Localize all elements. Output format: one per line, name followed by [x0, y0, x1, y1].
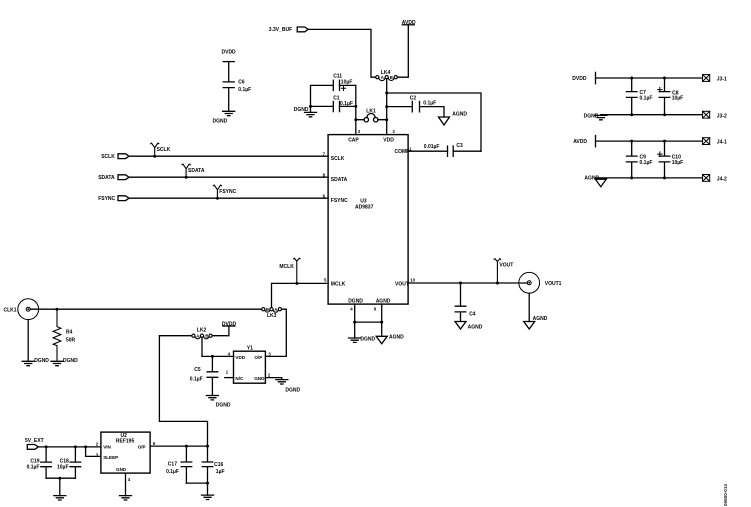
connector SCLK: [101, 154, 129, 160]
svg-text:SDATA: SDATA: [98, 175, 115, 181]
wire LK4 B to AVDD: [397, 25, 408, 77]
connector FSYNC: [98, 196, 129, 202]
svg-text:FSYNC: FSYNC: [219, 189, 236, 195]
wire joining pins 4 and 9: [355, 321, 382, 323]
junction VDD/C2: [385, 105, 388, 108]
wire C6 to ground: [228, 88, 230, 112]
svg-text:DGND: DGND: [34, 358, 49, 364]
svg-text:R4: R4: [66, 329, 73, 335]
svg-text:AVDD: AVDD: [402, 20, 416, 26]
svg-text:DGND: DGND: [294, 107, 309, 113]
junction C1/DGND: [309, 105, 312, 108]
svg-text:0.1µF: 0.1µF: [423, 101, 436, 107]
capacitor C8 10uF (polarized): [658, 78, 684, 115]
wire C2 to AGND: [420, 107, 445, 117]
ground DGND (C16/C17): [202, 495, 214, 499]
svg-text:DVDD: DVDD: [222, 321, 237, 327]
power flag DVDD (above LK2): [222, 321, 237, 327]
pin 2 label (U2): [96, 441, 99, 446]
wire CLK1 shield to ground: [27, 320, 29, 362]
regulator U2 REF195: [101, 432, 150, 473]
wire LK3 A to Y1 output: [265, 309, 286, 356]
power flag DVDD (top left): [222, 50, 237, 62]
svg-text:1µF: 1µF: [216, 469, 225, 475]
svg-text:DGND: DGND: [216, 402, 231, 408]
svg-text:DGND: DGND: [348, 298, 363, 304]
junction C18: [74, 445, 77, 448]
ground DGND (U3 pin 4): [349, 337, 376, 343]
wire AVDD rail to J4-1: [596, 140, 703, 142]
pin 7 SCLK label: [323, 151, 345, 162]
svg-text:DVDD: DVDD: [222, 50, 237, 56]
connector J4-2: [703, 175, 728, 183]
junction C7 top: [630, 77, 633, 80]
ground AGND (right of C2): [439, 112, 468, 126]
wire LK2 A to REF195 output: [159, 336, 207, 446]
svg-text:MCLK: MCLK: [331, 282, 346, 288]
wire C11 left to DGND drop: [311, 85, 334, 106]
power flag DVDD (right block): [572, 72, 595, 83]
svg-text:AGND: AGND: [452, 112, 467, 118]
pin 8 SDATA label: [323, 172, 348, 183]
svg-text:AVDD: AVDD: [573, 139, 587, 145]
pin 2 VDD label: [383, 129, 395, 144]
wire U2 O/P to C16 node: [150, 445, 207, 447]
svg-text:FSYNC: FSYNC: [331, 198, 348, 204]
svg-text:0.1µF: 0.1µF: [640, 160, 653, 166]
wire AGND rail to J4-2: [596, 177, 703, 179]
pin 2 label (Y1): [268, 373, 271, 378]
pin 3 CAP label: [348, 129, 361, 144]
connector SDATA: [98, 175, 129, 181]
test point VOUT: [494, 259, 513, 285]
junction C18/C19 ground rail: [58, 477, 61, 480]
wire AGND pin 9 below U3: [381, 304, 383, 336]
wire SDATA to pin 8: [129, 176, 328, 178]
wire LK2 centre down to Y1 VDD: [201, 337, 203, 356]
svg-text:C6: C6: [238, 80, 245, 86]
ground DGND (Y1): [276, 378, 301, 394]
ground DGND (C5): [206, 396, 231, 409]
oscillator Y1: [234, 346, 266, 384]
ground AGND (VOUT1): [524, 316, 548, 329]
svg-text:LK2: LK2: [197, 328, 207, 334]
svg-text:LK4: LK4: [381, 70, 391, 76]
wire COMP pin 1 to C3: [408, 150, 447, 152]
wire CAP pin line: [355, 85, 357, 134]
svg-text:C3: C3: [456, 143, 463, 149]
svg-text:10µF: 10µF: [672, 96, 684, 102]
junction CAP/C1: [354, 105, 357, 108]
capacitor C3 0.01uF: [424, 143, 463, 156]
pin 5 MCLK label: [324, 278, 346, 288]
svg-text:VDD: VDD: [235, 355, 245, 360]
svg-text:SCLK: SCLK: [101, 154, 115, 160]
capacitor C16 1uF: [202, 446, 224, 483]
svg-text:SDATA: SDATA: [188, 168, 205, 174]
wire C3 right plate (joined to AVDD rail drop at x=481): [453, 150, 481, 152]
junction C17: [185, 445, 188, 448]
test point MCLK: [279, 258, 300, 285]
svg-text:DVDD: DVDD: [572, 76, 587, 82]
svg-text:C5: C5: [194, 367, 201, 373]
junction C19: [45, 445, 48, 448]
junction pin9: [380, 321, 383, 324]
capacitor C18 10uF: [57, 447, 81, 478]
svg-text:VOUT: VOUT: [499, 263, 513, 269]
wire LK3 centre to MCLK pin 5: [272, 283, 329, 307]
svg-text:A: A: [196, 334, 199, 339]
resistor R4 50R: [53, 309, 75, 361]
junction Y1 VDD / C5: [211, 355, 214, 358]
connector 3.3V_BUF: [269, 27, 309, 33]
svg-text:U3: U3: [360, 199, 367, 205]
pin 3 label (U2): [96, 453, 99, 458]
svg-text:0.01µF: 0.01µF: [424, 144, 440, 150]
wire SLEEP branch to pin 3: [86, 447, 101, 457]
svg-text:O/P: O/P: [138, 444, 146, 449]
wire C1 left to DGND: [311, 105, 334, 107]
wire Y1 N/C stub: [225, 377, 234, 379]
wire U2 GND pin 4 to ground: [125, 473, 127, 496]
junction C10 top: [663, 140, 666, 143]
ground DGND (CLK1): [22, 358, 49, 366]
connector J3-2: [703, 111, 728, 119]
ground DGND (right block): [584, 114, 607, 120]
pin 1 COMP label: [395, 146, 413, 155]
svg-text:GND: GND: [254, 376, 265, 381]
test point FSYNC: [213, 185, 236, 200]
svg-text:DGND: DGND: [63, 358, 78, 364]
svg-text:C4: C4: [469, 311, 476, 317]
svg-text:10µF: 10µF: [341, 80, 353, 86]
capacitor C10 10uF (polarized): [658, 141, 684, 178]
svg-text:0.1µF: 0.1µF: [640, 96, 653, 102]
connector J3-1: [703, 75, 728, 83]
svg-text:SLEEP: SLEEP: [103, 455, 118, 460]
svg-text:10µF: 10µF: [672, 160, 684, 166]
svg-text:SDATA: SDATA: [331, 177, 348, 183]
wire C1 right to CAP pin 3 line: [340, 105, 356, 107]
wire Y1 VDD to LK2: [202, 355, 234, 357]
svg-text:VOUT: VOUT: [395, 282, 409, 288]
jumper LK1: [356, 108, 387, 122]
figure number 09600-014: [723, 484, 728, 506]
svg-text:FSYNC: FSYNC: [98, 196, 115, 202]
junction C16: [206, 445, 209, 448]
wire VOUT1 shield to ground: [528, 293, 530, 321]
svg-text:O/P: O/P: [254, 355, 262, 360]
wire CLK1 to LK3: [30, 308, 262, 310]
wire 3.3V_BUF to LK4 pin A: [308, 29, 375, 77]
svg-text:VDD: VDD: [383, 138, 394, 144]
svg-text:C2: C2: [410, 95, 417, 101]
junction C7 bottom: [630, 113, 633, 116]
svg-text:AGND: AGND: [389, 335, 404, 341]
wire FSYNC to pin 6: [129, 197, 328, 199]
junction CAP/LK1: [354, 118, 357, 121]
junction pin4: [353, 321, 356, 324]
svg-text:0.1µF: 0.1µF: [27, 464, 40, 470]
svg-text:C17: C17: [168, 462, 177, 468]
svg-text:0.1µF: 0.1µF: [190, 376, 203, 382]
pin 1 label (Y1): [226, 369, 229, 374]
svg-text:AGND: AGND: [584, 176, 599, 182]
wire DGND pin 4 below U3: [354, 304, 356, 338]
junction VOUT/C4: [459, 282, 462, 285]
wire C19/C18 common to ground: [46, 478, 75, 495]
svg-text:REF195: REF195: [116, 439, 135, 445]
svg-text:AGND: AGND: [533, 316, 548, 322]
svg-text:09600-014: 09600-014: [723, 484, 728, 506]
jumper LK4: [376, 70, 398, 81]
test point SDATA: [182, 164, 205, 179]
capacitor C6 0.1uF: [223, 80, 251, 93]
junction LK1/VDD line: [385, 118, 388, 121]
svg-text:DGND: DGND: [213, 118, 228, 124]
wire Y1 GND to ground: [265, 377, 281, 379]
svg-text:J3-2: J3-2: [717, 113, 727, 119]
svg-text:A: A: [274, 307, 277, 312]
pin 4 DGND label: [348, 298, 363, 311]
junction VDD/C3: [385, 92, 388, 95]
svg-text:5V_EXT: 5V_EXT: [25, 438, 44, 444]
jumper LK3: [262, 307, 282, 319]
wire VDD node to C3 branch: [387, 93, 481, 151]
svg-text:LK1: LK1: [366, 108, 376, 114]
svg-text:B: B: [266, 307, 269, 312]
junction C16 ground rail: [206, 482, 209, 485]
wire C11 right to CAP line: [340, 84, 356, 86]
pin 10 VOUT label: [395, 278, 416, 288]
svg-text:CLK1: CLK1: [4, 307, 17, 313]
svg-text:VOUT1: VOUT1: [545, 281, 562, 287]
svg-text:COMP: COMP: [395, 149, 411, 155]
svg-text:0.1µF: 0.1µF: [238, 87, 251, 93]
svg-text:CAP: CAP: [348, 138, 359, 144]
junction SLEEP branch: [84, 445, 87, 448]
pin 6 FSYNC label: [323, 193, 349, 204]
wire LK2 B to DVDD: [212, 326, 229, 336]
svg-text:SCLK: SCLK: [331, 156, 345, 162]
power flag AVDD (right block): [573, 136, 595, 147]
svg-text:N/C: N/C: [235, 376, 244, 381]
svg-text:J4-2: J4-2: [717, 177, 727, 183]
wire DVDD to C6: [228, 62, 230, 82]
capacitor C19 0.1uF: [27, 447, 52, 478]
junction C9 bottom: [630, 176, 633, 179]
svg-text:0.1µF: 0.1µF: [166, 469, 179, 475]
svg-text:LK3: LK3: [267, 313, 277, 319]
svg-text:3.3V_BUF: 3.3V_BUF: [269, 27, 292, 33]
junction C10 bottom: [663, 176, 666, 179]
wire SCLK to pin 7: [129, 155, 328, 157]
svg-text:DGND: DGND: [360, 337, 375, 343]
svg-text:J3-1: J3-1: [717, 77, 727, 83]
capacitor C7 0.1uF: [626, 78, 652, 115]
svg-text:50R: 50R: [66, 337, 76, 343]
svg-text:MCLK: MCLK: [279, 264, 294, 270]
pin 4 label (Y1): [228, 352, 231, 357]
capacitor C11 10uF (polarized): [333, 73, 352, 90]
connector 5V_EXT: [25, 438, 44, 449]
svg-text:10: 10: [410, 278, 415, 283]
ground DGND (below C6): [213, 111, 235, 124]
svg-text:VIN: VIN: [103, 444, 111, 449]
svg-text:Y1: Y1: [247, 346, 253, 352]
svg-text:DGND: DGND: [285, 388, 300, 394]
svg-text:10µF: 10µF: [57, 464, 69, 470]
capacitor C17 0.1uF: [166, 446, 192, 483]
pin 9 AGND label: [374, 298, 391, 311]
svg-text:C1: C1: [333, 95, 340, 101]
capacitor C4: [455, 283, 476, 322]
svg-text:AGND: AGND: [468, 325, 483, 331]
test point SCLK: [151, 143, 171, 158]
ground AGND (right block): [584, 176, 606, 187]
ground AGND (U3 pin 9): [376, 335, 404, 344]
ground AGND (C4): [455, 322, 483, 331]
capacitor C5 0.1uF: [190, 356, 218, 395]
pin 3 label (Y1): [268, 352, 271, 357]
ground DGND (R4): [51, 358, 78, 366]
connector VOUT1 (BNC): [519, 272, 562, 293]
pin 6 label (U2): [153, 441, 156, 446]
junction C9 top: [630, 140, 633, 143]
ground DGND (left of C1): [294, 106, 317, 116]
svg-text:DGND: DGND: [584, 114, 599, 120]
capacitor C1 0.1uF: [333, 95, 353, 111]
wire DVDD rail to J3-1: [596, 77, 703, 79]
junction CLK1/R4: [56, 308, 59, 311]
capacitor C2 0.1uF: [410, 95, 436, 112]
svg-text:SCLK: SCLK: [157, 147, 171, 153]
wire 5V_EXT to VIN pin 2: [38, 446, 101, 448]
capacitor C9 0.1uF: [626, 141, 652, 178]
svg-text:J4-1: J4-1: [717, 140, 727, 146]
junction C8 top: [663, 77, 666, 80]
wire DGND rail to J3-2: [601, 114, 703, 116]
svg-text:AGND: AGND: [376, 298, 391, 304]
wire C17/C16 common to ground: [186, 483, 207, 495]
pin 4 label (U2): [128, 477, 131, 482]
wire LK4 centre to VDD pin 2: [386, 79, 388, 135]
svg-text:GND: GND: [116, 467, 127, 472]
IC U3 AD9837 (DDS): [328, 135, 408, 305]
wire VOUT pin 10 to BNC: [408, 282, 527, 284]
connector CLK1 (BNC): [4, 299, 39, 320]
jumper LK2: [192, 328, 212, 339]
junction C8 bottom: [663, 113, 666, 116]
power flag AVDD (top): [402, 20, 416, 26]
ground DGND (U2): [120, 496, 132, 500]
connector J4-1: [703, 138, 728, 146]
svg-text:AD9837: AD9837: [355, 205, 374, 211]
ground DGND (C18/C19): [54, 496, 66, 500]
svg-text:C16: C16: [214, 462, 223, 468]
svg-text:B: B: [205, 334, 208, 339]
wire VDD node to C2: [387, 106, 413, 108]
svg-text:C11: C11: [333, 73, 342, 79]
